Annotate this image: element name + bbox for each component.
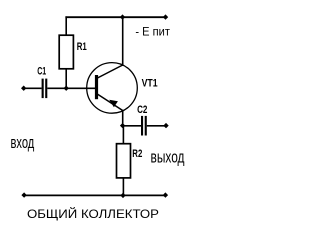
wire: top supply rail — [65, 16, 166, 18]
svg-text:R2: R2 — [132, 148, 142, 160]
wire: emitter node down to R2 — [122, 126, 124, 144]
svg-text:C1: C1 — [37, 66, 46, 78]
svg-text:C2: C2 — [137, 104, 147, 116]
capacitor C2 (plates) — [141, 116, 147, 136]
junction: collector wire to rail — [120, 14, 125, 19]
svg-text:VT1: VT1 — [142, 78, 158, 90]
node: supply terminal (right end of rail) — [163, 14, 168, 19]
svg-text:- Е пит: - Е пит — [135, 24, 170, 38]
wire: emitter down to emitter node — [122, 111, 124, 126]
wire: rail corner down to R1 top — [65, 16, 67, 35]
transistor VT1 (PNP) — [87, 63, 138, 114]
svg-text:выход: выход — [151, 148, 185, 166]
capacitor C1 (plates) — [42, 79, 48, 99]
wire: input terminal to C1 — [24, 87, 42, 89]
svg-text:ОБЩИЙ КОЛЛЕКТОР: ОБЩИЙ КОЛЛЕКТОР — [27, 206, 159, 221]
svg-text:вход: вход — [11, 134, 35, 152]
node: bottom-left terminal — [21, 192, 26, 197]
wire: C2 to output terminal — [147, 125, 166, 127]
node: output terminal — [163, 123, 168, 128]
junction: R2 to bottom rail — [120, 193, 125, 198]
wire: emitter node to C2 — [123, 125, 141, 127]
wire: C1 to transistor base (through base junction) — [47, 87, 95, 89]
wire: R1 bottom to base node — [65, 69, 67, 89]
node: input terminal — [21, 86, 26, 91]
junction: base node (R1 / C1 / base) — [64, 86, 69, 91]
junction: emitter node — [120, 123, 125, 128]
node: bottom-right terminal — [163, 192, 168, 197]
resistor R1 — [59, 35, 73, 69]
resistor R2 — [117, 144, 131, 178]
wire: collector up to rail — [122, 17, 124, 66]
wire: R2 bottom to bottom rail — [122, 178, 124, 196]
svg-text:R1: R1 — [77, 41, 87, 53]
wire: bottom rail — [24, 194, 166, 196]
